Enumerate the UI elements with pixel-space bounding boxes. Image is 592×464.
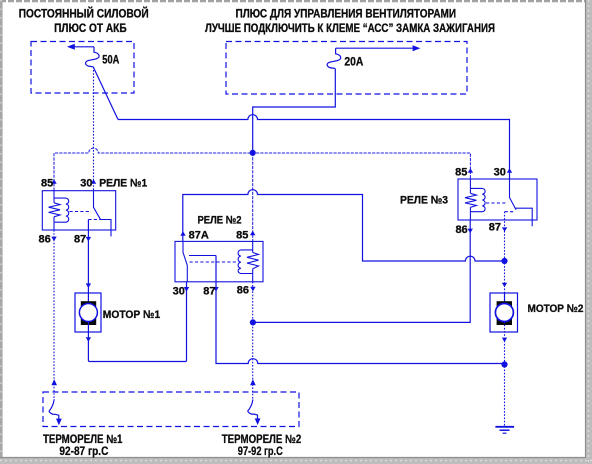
svg-text:ПЛЮС ОТ АКБ: ПЛЮС ОТ АКБ (54, 23, 127, 35)
svg-text:86: 86 (237, 284, 249, 296)
svg-text:РЕЛЕ №1: РЕЛЕ №1 (99, 178, 147, 190)
svg-text:ПОСТОЯННЫЙ СИЛОВОЙ: ПОСТОЯННЫЙ СИЛОВОЙ (19, 8, 149, 21)
svg-text:86: 86 (455, 224, 467, 236)
svg-text:87: 87 (489, 222, 501, 234)
svg-text:85: 85 (236, 230, 248, 242)
svg-text:20A: 20A (344, 56, 363, 68)
svg-text:85: 85 (455, 166, 467, 178)
svg-text:85: 85 (41, 178, 53, 190)
svg-text:ПЛЮС ДЛЯ УПРАВЛЕНИЯ ВЕНТИЛЯТОР: ПЛЮС ДЛЯ УПРАВЛЕНИЯ ВЕНТИЛЯТОРАМИ (236, 9, 457, 21)
svg-text:87: 87 (74, 234, 86, 246)
svg-text:МОТОР №2: МОТОР №2 (528, 303, 584, 315)
svg-text:ЛУЧШЕ ПОДКЛЮЧИТЬ К КЛЕМЕ “АСС”: ЛУЧШЕ ПОДКЛЮЧИТЬ К КЛЕМЕ “АСС” ЗАМКА ЗАЖ… (205, 23, 495, 35)
svg-text:92-87 гр.С: 92-87 гр.С (59, 444, 108, 458)
svg-text:РЕЛЕ №3: РЕЛЕ №3 (400, 194, 448, 206)
svg-text:86: 86 (39, 234, 51, 246)
svg-text:РЕЛЕ №2: РЕЛЕ №2 (198, 214, 242, 226)
svg-text:30: 30 (80, 178, 92, 190)
svg-text:МОТОР №1: МОТОР №1 (103, 309, 160, 321)
svg-text:87: 87 (203, 286, 215, 298)
svg-text:30: 30 (494, 166, 506, 178)
svg-text:87A: 87A (189, 230, 209, 242)
svg-text:97-92 гр.С: 97-92 гр.С (238, 444, 283, 458)
svg-text:30: 30 (173, 286, 185, 298)
svg-text:50A: 50A (102, 54, 119, 66)
